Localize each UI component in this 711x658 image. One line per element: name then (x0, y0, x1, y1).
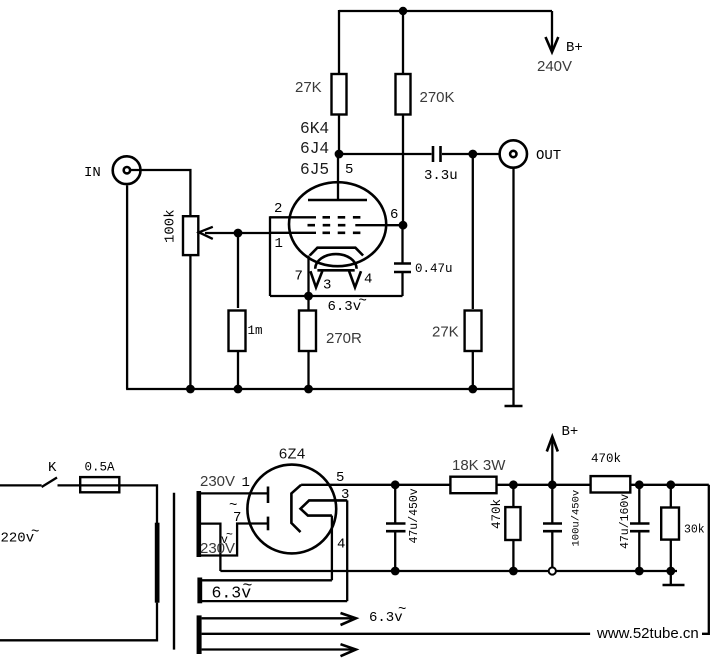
wire bottom ground rail (126, 388, 513, 390)
tube V2 plate 2 (267, 517, 270, 531)
wire coupling cap to OUT (442, 153, 499, 155)
wire HT bottom tap to plate pin7 (200, 524, 268, 556)
svg-text:OUT: OUT (536, 148, 561, 164)
wire cathode B+ rail segment 1 (301, 484, 450, 486)
tube V2 plate 1 (267, 487, 270, 504)
node dot 470k top (509, 480, 518, 489)
svg-text:230V: 230V (200, 473, 235, 490)
node dot 30k bottom (666, 567, 675, 576)
wire IN to pot top (131, 170, 190, 216)
resistor 270R cathode (299, 311, 362, 352)
svg-text:240V: 240V (537, 58, 572, 75)
connector OUT jack (500, 140, 562, 167)
resistor 470k shunt (490, 485, 521, 571)
transformer core (173, 493, 175, 650)
node open circle 100u bottom (549, 567, 556, 574)
svg-text:3.3u: 3.3u (424, 168, 458, 184)
tube V1 plate (308, 199, 367, 202)
svg-text:4: 4 (337, 537, 345, 553)
wire B+ top rail (339, 10, 552, 12)
wire B+ rail segment 3 (630, 484, 709, 486)
svg-text:27K: 27K (295, 79, 322, 96)
switch K (0, 460, 57, 487)
svg-text:470k: 470k (591, 452, 621, 466)
heater arrow pin4 (349, 271, 361, 287)
node junction on top rail (399, 7, 407, 15)
wire switch to fuse (58, 484, 81, 486)
wire B+ rail segment 2 (497, 484, 591, 486)
tube V1 cathode cup (310, 248, 363, 256)
capacitor 3.3u coupling (424, 146, 458, 184)
potentiometer 100k (163, 209, 213, 255)
wire heater2 center tap to common (202, 633, 590, 635)
svg-text:270R: 270R (326, 330, 362, 347)
tube V2 cathode (291, 485, 301, 532)
svg-text:~: ~ (31, 525, 39, 541)
tube V1 grid row 1 (270, 216, 364, 218)
node rail dot pot (186, 385, 195, 394)
svg-text:~: ~ (398, 602, 406, 618)
ground symbol PSU (663, 571, 685, 585)
svg-text:7: 7 (295, 269, 303, 285)
node rail dot 270R (304, 385, 313, 394)
wire 27K bottom lead to anode node (338, 115, 340, 155)
wire pot bottom to ground rail (189, 255, 191, 389)
svg-text:1m: 1m (248, 324, 263, 338)
wire pin4 heater lead down (331, 516, 333, 581)
wire 27K bottom lead (472, 351, 474, 389)
wire heater2 top tap with arrow (202, 613, 356, 625)
wire anode lead into tube (337, 154, 339, 199)
svg-text:B+: B+ (566, 40, 583, 56)
transformer heater winding 6.3v rectifier (197, 578, 202, 604)
ground symbol (505, 389, 523, 406)
svg-text:230V: 230V (200, 540, 235, 557)
svg-text:470k: 470k (490, 499, 504, 529)
tube V2 heater (301, 500, 348, 515)
tube V1 grid row 2 (308, 224, 404, 227)
label 6.3v~ rectifier heater (212, 576, 253, 603)
wire primary bottom (0, 603, 157, 641)
svg-text:0.5A: 0.5A (85, 461, 116, 475)
wire wiper to grid (205, 232, 270, 234)
svg-text:6Z4: 6Z4 (279, 447, 306, 464)
resistor 27K plate load (332, 74, 347, 115)
wire 27K plate-load top lead (338, 10, 340, 74)
wire heater1 bottom tap (202, 600, 347, 602)
svg-text:7: 7 (233, 510, 241, 526)
node rail dot 27K (468, 385, 477, 394)
node dot 47u top (391, 480, 400, 489)
tube V2 6Z4 envelope (247, 465, 336, 554)
wire 1m bottom lead (237, 351, 239, 389)
tube V1 heater dome (315, 254, 356, 270)
node rail dot 1m (234, 385, 243, 394)
wire heater2 bottom tap with arrow (202, 644, 356, 656)
svg-text:1: 1 (242, 475, 250, 491)
svg-text:5: 5 (345, 162, 353, 178)
capacitor 100u/450v (543, 485, 583, 568)
svg-text:220v: 220v (1, 531, 35, 547)
svg-text:0.47u: 0.47u (415, 262, 453, 276)
wire pin3 heater lead down (346, 500, 348, 601)
svg-text:27K: 27K (432, 324, 459, 341)
wire 270K top lead (402, 11, 404, 74)
node dot 47u bottom (391, 567, 400, 576)
fuse 0.5A (80, 461, 119, 493)
svg-text:~: ~ (243, 576, 253, 595)
node dot 30k top (666, 480, 675, 489)
svg-text:47u/450v: 47u/450v (408, 488, 421, 543)
node wiper junction (234, 229, 243, 238)
svg-text:270K: 270K (420, 89, 455, 106)
connector IN jack (84, 156, 141, 184)
svg-text:100u/450v: 100u/450v (571, 490, 583, 547)
svg-text:30k: 30k (684, 524, 705, 537)
svg-text:6J5: 6J5 (300, 161, 329, 179)
wire 270R top lead (307, 296, 309, 311)
svg-text:IN: IN (84, 165, 101, 181)
svg-text:6J4: 6J4 (300, 140, 329, 158)
wire output node down to 27K grid resistor (472, 154, 474, 309)
label 6.3v~ heater (328, 294, 367, 316)
node output junction (468, 150, 477, 159)
wire anode to coupling cap (339, 153, 432, 155)
svg-text:3: 3 (323, 278, 331, 294)
svg-text:6.3v: 6.3v (328, 299, 362, 315)
B+ output arrow (547, 424, 579, 485)
resistor 18K 3W (450, 457, 506, 493)
svg-text:6: 6 (390, 207, 398, 223)
wire HT top tap to plate pin1 (200, 492, 268, 494)
node dot 470k bottom (509, 567, 518, 576)
label 6.3v~ amp heater (369, 602, 406, 626)
node cathode junction (304, 292, 313, 301)
wire right edge return (702, 485, 709, 634)
resistor 270K (396, 74, 411, 115)
B+ feed arrow 240V (537, 11, 583, 75)
resistor 1m grid leak (229, 311, 263, 352)
node pin6 junction (399, 221, 408, 230)
node anode junction (335, 150, 344, 159)
wire heater1 top tap (202, 579, 332, 581)
wire 270R bottom lead (307, 351, 309, 389)
svg-text:2: 2 (274, 201, 282, 217)
tube V1 envelope 6K4/6J4/6J5 (289, 182, 386, 266)
svg-text:18K 3W: 18K 3W (452, 457, 506, 474)
transformer heater winding 6.3v amp (197, 615, 202, 654)
resistor 30k bleeder (661, 485, 705, 571)
wire cathode rail (270, 295, 403, 297)
label 220v~ (1, 525, 40, 547)
node dot 47u/160v bottom (635, 567, 644, 576)
label v~ remnant (221, 529, 233, 547)
capacitor 47u/450v (386, 485, 421, 571)
svg-text:6K4: 6K4 (300, 120, 329, 138)
tube V1 grid row 3 (270, 232, 364, 234)
capacitor 47u/160v (619, 485, 650, 571)
node dot 47u/160v top (635, 480, 644, 489)
resistor 470k series (591, 452, 631, 493)
svg-text:www.52tube.cn: www.52tube.cn (596, 625, 699, 642)
wire common ground rail (220, 570, 677, 572)
wire grid bracket (269, 216, 271, 296)
heater arrow pin3 (310, 271, 322, 287)
node dot B+ takeoff (548, 480, 557, 489)
wire HT center tap to common (200, 524, 220, 571)
wire cathode lead pin7 (307, 256, 309, 297)
wire 1m top lead (237, 233, 239, 308)
capacitor 0.47u (394, 225, 453, 296)
transformer primary winding (155, 523, 160, 603)
svg-text:100k: 100k (163, 209, 179, 243)
transformer secondary HT winding (197, 491, 202, 557)
wire 270K bottom lead down to pin6 node (402, 115, 404, 226)
svg-text:47u/160v: 47u/160v (619, 494, 632, 549)
svg-text:~: ~ (226, 529, 233, 542)
wire OUT jack down to ground rail (512, 168, 514, 389)
svg-text:5: 5 (336, 470, 344, 486)
svg-text:4: 4 (364, 272, 372, 288)
wire IN jack down to ground rail (126, 185, 128, 389)
svg-text:1: 1 (275, 236, 283, 252)
resistor 27K grid return (432, 311, 482, 352)
wire fuse to primary (119, 485, 157, 523)
svg-text:B+: B+ (562, 424, 579, 440)
svg-text:K: K (48, 460, 57, 476)
